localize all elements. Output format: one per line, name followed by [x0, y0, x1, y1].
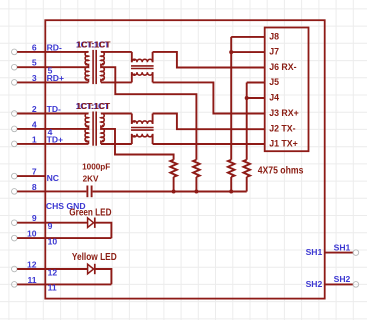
- wire TX- : choke L2 to J2: [153, 114, 265, 130]
- choke L2 polarity dot bottom: [133, 135, 136, 138]
- wire J8 net vertical to R3: [230, 37, 232, 160]
- svg-text:2: 2: [32, 104, 37, 114]
- wire R4 bottom lead: [246, 177, 248, 192]
- svg-text:10: 10: [27, 229, 37, 239]
- svg-text:9: 9: [48, 221, 53, 231]
- transformer T2 polarity dot primary upper: [85, 125, 88, 128]
- choke L1 core: [131, 65, 154, 67]
- wire termination rail: [93, 191, 247, 193]
- svg-text:2KV: 2KV: [83, 175, 99, 184]
- svg-text:8: 8: [32, 182, 37, 192]
- wire RX+ : choke L1 to J3: [153, 82, 265, 113]
- transformer T2 secondary winding: [101, 113, 104, 144]
- wire pin 7: [17, 175, 45, 177]
- module outline box U1: [45, 20, 324, 298]
- svg-text:J7: J7: [269, 47, 279, 57]
- choke L1 bottom winding: [132, 72, 153, 82]
- pin 10 terminal circle: [12, 235, 18, 241]
- svg-text:TD-: TD-: [47, 104, 61, 114]
- wire pin 8: [17, 190, 86, 192]
- svg-text:J3 RX+: J3 RX+: [269, 108, 299, 118]
- svg-text:1: 1: [32, 134, 37, 144]
- transformer T2 polarity dot secondary upper: [102, 125, 105, 128]
- svg-text:SH2: SH2: [306, 279, 323, 289]
- svg-text:1CT:1CT: 1CT:1CT: [77, 102, 111, 111]
- svg-text:SH1: SH1: [306, 247, 323, 257]
- wire D1 cathode loop to pin 10: [95, 223, 112, 238]
- transformer T2 polarity dot primary lower: [85, 140, 88, 143]
- wire T1 secondary center tap: [101, 67, 196, 160]
- svg-text:RD-: RD-: [47, 43, 62, 53]
- svg-text:Green LED: Green LED: [69, 207, 111, 218]
- diode D2 yellow LED: [88, 264, 95, 274]
- wire RX- : choke L1 to J6: [153, 52, 265, 68]
- svg-text:Yellow LED: Yellow LED: [72, 252, 117, 263]
- wire R2 bottom lead: [195, 177, 197, 192]
- svg-text:10: 10: [48, 236, 58, 246]
- wire T2 secondary bottom to choke L2: [101, 143, 132, 145]
- pin 1 terminal circle: [12, 141, 18, 147]
- wire pin 10: [17, 237, 111, 239]
- capacitor C1 plates: [86, 186, 88, 198]
- wire T1 secondary top to choke L1: [101, 51, 132, 53]
- svg-text:6: 6: [32, 42, 37, 52]
- pin 11 terminal circle: [12, 282, 18, 288]
- transformer T1 polarity dot secondary upper: [102, 63, 105, 66]
- wire R1 bottom lead: [173, 177, 175, 192]
- pin 3 terminal circle: [12, 80, 18, 86]
- pin 5 terminal circle: [12, 64, 18, 70]
- wire J5 net vertical to R4: [246, 83, 248, 160]
- wire SH2 stub: [325, 283, 353, 285]
- transformer T2 primary winding: [85, 113, 88, 144]
- svg-text:5: 5: [32, 58, 37, 68]
- resistor R2 75 ohms: [193, 160, 200, 177]
- wire R3 bottom lead: [230, 177, 232, 192]
- wire TX+ : choke L2 to J1: [153, 143, 265, 145]
- svg-text:4X75 ohms: 4X75 ohms: [258, 166, 304, 177]
- junction rail R2: [194, 190, 198, 194]
- choke L2 top winding: [132, 114, 153, 124]
- choke L1 top winding: [132, 52, 153, 62]
- junction J4/J5 net: [245, 96, 249, 100]
- choke L2 core: [131, 127, 154, 129]
- svg-text:J5: J5: [269, 77, 279, 87]
- transformer T2 core: [92, 112, 94, 146]
- wire D2 cathode loop to pin 11: [95, 269, 112, 284]
- svg-text:J8: J8: [269, 31, 279, 41]
- transformer T1 secondary winding: [101, 52, 104, 83]
- svg-text:1CT:1CT: 1CT:1CT: [77, 40, 111, 49]
- wire J7 stub: [231, 51, 265, 53]
- wire pin 9: [17, 222, 88, 224]
- svg-text:TD+: TD+: [47, 135, 63, 145]
- choke L1 polarity dot bottom: [133, 73, 136, 76]
- wire T2 secondary center tap to R1: [101, 129, 174, 160]
- svg-text:J2 TX-: J2 TX-: [269, 124, 295, 134]
- svg-text:SH2: SH2: [334, 274, 351, 284]
- svg-text:J1 TX+: J1 TX+: [269, 139, 298, 149]
- pin SH2 terminal circle: [353, 282, 359, 288]
- svg-text:4: 4: [32, 119, 37, 129]
- svg-text:12: 12: [48, 267, 58, 277]
- resistor R3 75 ohms: [228, 160, 235, 177]
- resistor R4 75 ohms: [243, 160, 250, 177]
- transformer T1 polarity dot secondary lower: [102, 78, 105, 81]
- svg-text:11: 11: [48, 283, 57, 293]
- wire SH1 stub: [325, 252, 353, 254]
- wire T2 secondary top to choke L2: [101, 113, 132, 115]
- svg-text:J6 RX-: J6 RX-: [269, 62, 296, 72]
- junction J7/J8 net: [229, 50, 233, 54]
- connector box J1-J8: [265, 28, 309, 152]
- svg-text:SH1: SH1: [334, 242, 351, 252]
- wire pin 2: [17, 113, 88, 115]
- diode D1 green LED: [88, 218, 95, 228]
- svg-text:11: 11: [28, 275, 37, 285]
- transformer T1 core: [92, 50, 94, 84]
- svg-text:12: 12: [27, 260, 37, 270]
- svg-text:RD+: RD+: [47, 73, 64, 83]
- wire pin 1: [17, 143, 88, 145]
- choke L2 polarity dot top: [133, 120, 136, 123]
- svg-text:NC: NC: [47, 173, 59, 183]
- wire pin 12: [17, 268, 88, 270]
- pin 8 terminal circle: [12, 189, 18, 195]
- pin 6 terminal circle: [12, 49, 18, 55]
- transformer T1 polarity dot primary upper: [85, 63, 88, 66]
- junction rail R3: [229, 190, 233, 194]
- svg-text:1000pF: 1000pF: [82, 162, 110, 171]
- choke L1 polarity dot top: [133, 59, 136, 62]
- svg-text:9: 9: [32, 213, 37, 223]
- wire pin 11: [17, 283, 111, 285]
- pin 4 terminal circle: [12, 126, 18, 132]
- wire pin 3: [17, 81, 88, 83]
- resistor R1 75 ohms: [170, 160, 177, 177]
- transformer T1 primary winding: [85, 52, 88, 83]
- wire pin 4: [17, 128, 88, 130]
- transformer T1 polarity dot primary lower: [85, 78, 88, 81]
- choke L2 bottom winding: [132, 134, 153, 144]
- svg-text:7: 7: [32, 167, 37, 177]
- pin 9 terminal circle: [12, 220, 18, 226]
- transformer T2 polarity dot secondary lower: [102, 140, 105, 143]
- wire J4 stub: [247, 97, 265, 99]
- wire pin 5: [17, 66, 88, 68]
- junction rail R1: [172, 190, 176, 194]
- wire J8 stub: [231, 36, 265, 38]
- pin SH1 terminal circle: [353, 250, 359, 256]
- wire J5 stub: [247, 82, 265, 84]
- wire T1 secondary bottom to choke L1: [101, 81, 132, 83]
- pin 12 terminal circle: [12, 266, 18, 272]
- svg-text:J4: J4: [269, 93, 279, 103]
- wire pin 6: [17, 51, 88, 53]
- pin 7 terminal circle: [12, 173, 18, 179]
- pin 2 terminal circle: [12, 111, 18, 117]
- svg-text:3: 3: [32, 73, 37, 83]
